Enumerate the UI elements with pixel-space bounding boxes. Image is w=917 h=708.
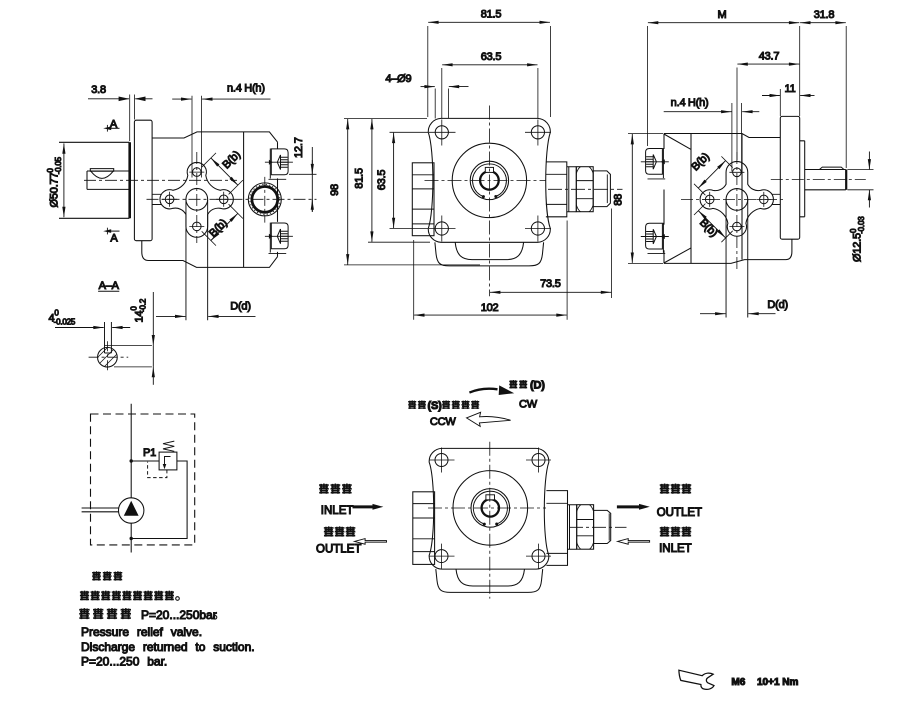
shaft: [805, 170, 846, 190]
port labels left: [319, 484, 329, 494]
svg-text:CCW: CCW: [430, 416, 456, 428]
svg-text:88: 88: [613, 194, 625, 206]
svg-text:OUTLET: OUTLET: [657, 507, 702, 519]
svg-text:3.8: 3.8: [91, 84, 106, 96]
fittings left: [641, 148, 669, 179]
right fitting: [546, 162, 567, 217]
neck lines W lobe to flange: [152, 194, 162, 204]
14 -0.2 dim: [105, 345, 152, 367]
front section top + body top: [152, 132, 277, 142]
wire: relief return line: [131, 461, 187, 539]
shaft centerline: [84, 179, 237, 181]
body below flange: [436, 569, 543, 592]
labels: 右旋 (D) CW: [509, 380, 517, 389]
clover mirrored: [700, 161, 773, 236]
svg-text:63.5: 63.5: [376, 170, 388, 191]
svg-text:D(d): D(d): [230, 301, 251, 313]
inlet/outlet arrows: [353, 505, 374, 508]
labels: 左旋(S)如图所示 CCW: [408, 400, 416, 409]
flange: [429, 448, 549, 569]
svg-text:Pressure relief valve.: Pressure relief valve.: [81, 625, 202, 639]
dim 12.7: [289, 173, 317, 175]
svg-text:81.5: 81.5: [481, 9, 502, 21]
svg-text:n.4 H(h): n.4 H(h): [671, 97, 709, 109]
B(b) lower dim: [202, 204, 243, 245]
n.4 H(h) thread lines + dim: [192, 96, 202, 178]
left dims 98 / 81.5 / 63.5: [344, 119, 480, 265]
wire: branch to relief valve: [131, 460, 159, 462]
B(b) upper dim: [202, 153, 243, 195]
B(b) lower-left: [694, 204, 733, 243]
svg-text:10+1 Nm: 10+1 Nm: [757, 677, 799, 688]
svg-text:M6: M6: [731, 677, 745, 688]
svg-text:P1: P1: [143, 447, 156, 459]
svg-text:P=20...250 bar.: P=20...250 bar.: [81, 655, 167, 669]
bearing carrier circles: [452, 143, 526, 217]
body joint line: [243, 132, 245, 268]
key slot + shaft section: [105, 322, 112, 353]
section A markers: [106, 127, 120, 129]
left port block: [413, 492, 435, 565]
junction node lower: [130, 537, 133, 540]
svg-text:98: 98: [329, 184, 341, 196]
flange: [780, 116, 799, 239]
svg-text:12.7: 12.7: [293, 137, 305, 158]
svg-text:D(d): D(d): [767, 299, 788, 311]
svg-text:A: A: [110, 232, 118, 244]
svg-text:A: A: [110, 119, 118, 131]
junction node upper: [130, 459, 133, 462]
flange: [428, 118, 550, 242]
svg-text:A–A: A–A: [99, 280, 120, 292]
D(d) ext + dim: [726, 200, 748, 318]
D(d) extension lines + dim: [186, 200, 208, 320]
mounting flange plate: [134, 120, 152, 241]
svg-text:OUTLET: OUTLET: [316, 543, 361, 555]
88 dim: [628, 134, 663, 264]
bolt holes: [435, 126, 544, 235]
horizontal centerline through W/E holes and port: [147, 198, 317, 200]
relief valve flow arrow: [165, 457, 171, 465]
svg-text:n.4 H(h): n.4 H(h): [227, 83, 265, 95]
svg-text:31.8: 31.8: [814, 9, 835, 21]
bearing cylinder Ø50.77: [59, 142, 129, 218]
bottom dims 102 / 73.5: [414, 209, 612, 320]
pump symbol: [119, 498, 144, 523]
svg-text:Discharge returned to suction.: Discharge returned to suction.: [81, 640, 255, 654]
pilot line (dashed): [148, 462, 167, 478]
svg-text:102: 102: [481, 302, 499, 314]
Ø12.5 dim: [848, 170, 874, 190]
svg-text:INLET: INLET: [659, 543, 692, 555]
svg-text:63.5: 63.5: [481, 51, 502, 63]
relief valve P1 body: [159, 452, 177, 470]
left port block: [412, 163, 434, 236]
B(b) upper-left: [694, 156, 733, 195]
top dims M / 31.8 / 43.7 / 11 / n.4 H(h): [648, 26, 847, 172]
fittings right side: [265, 149, 293, 180]
svg-text:(S): (S): [428, 400, 443, 412]
4 -0.025 dim: [55, 327, 104, 329]
rotation arrows: [469, 389, 497, 393]
dim Ø50.77: [63, 143, 65, 217]
right fitting: [546, 491, 567, 566]
shaft with woodruff key: [87, 171, 129, 189]
svg-text:73.5: 73.5: [540, 278, 561, 290]
svg-text:P=20...250bar: P=20...250bar: [141, 608, 217, 622]
relief valve spring: [163, 441, 174, 451]
wire: main pressure line: [130, 404, 132, 553]
enclosure (dashed boundary): [91, 414, 195, 545]
top dims: [428, 26, 551, 117]
foot under flange + body bottom profile: [142, 241, 278, 268]
svg-text:(D): (D): [530, 380, 545, 392]
dim 3.8: [130, 95, 135, 142]
svg-text:43.7: 43.7: [759, 51, 780, 63]
svg-text:INLET: INLET: [321, 505, 354, 517]
body outline: [664, 134, 780, 138]
svg-text:11: 11: [784, 83, 795, 95]
svg-text:81.5: 81.5: [354, 168, 366, 189]
centerlines: [488, 106, 490, 297]
port labels right: [660, 484, 670, 494]
body below flange: [435, 242, 544, 266]
svg-text:4–Ø9: 4–Ø9: [385, 73, 411, 85]
clover mounting face: [160, 162, 233, 237]
wire: suction double line: [82, 508, 119, 512]
port circle (knurled): [248, 183, 281, 216]
body right edge segments: [277, 142, 279, 257]
svg-text:M: M: [718, 9, 727, 21]
svg-text:CW: CW: [519, 399, 538, 411]
clover vertical centerline: [196, 152, 198, 243]
